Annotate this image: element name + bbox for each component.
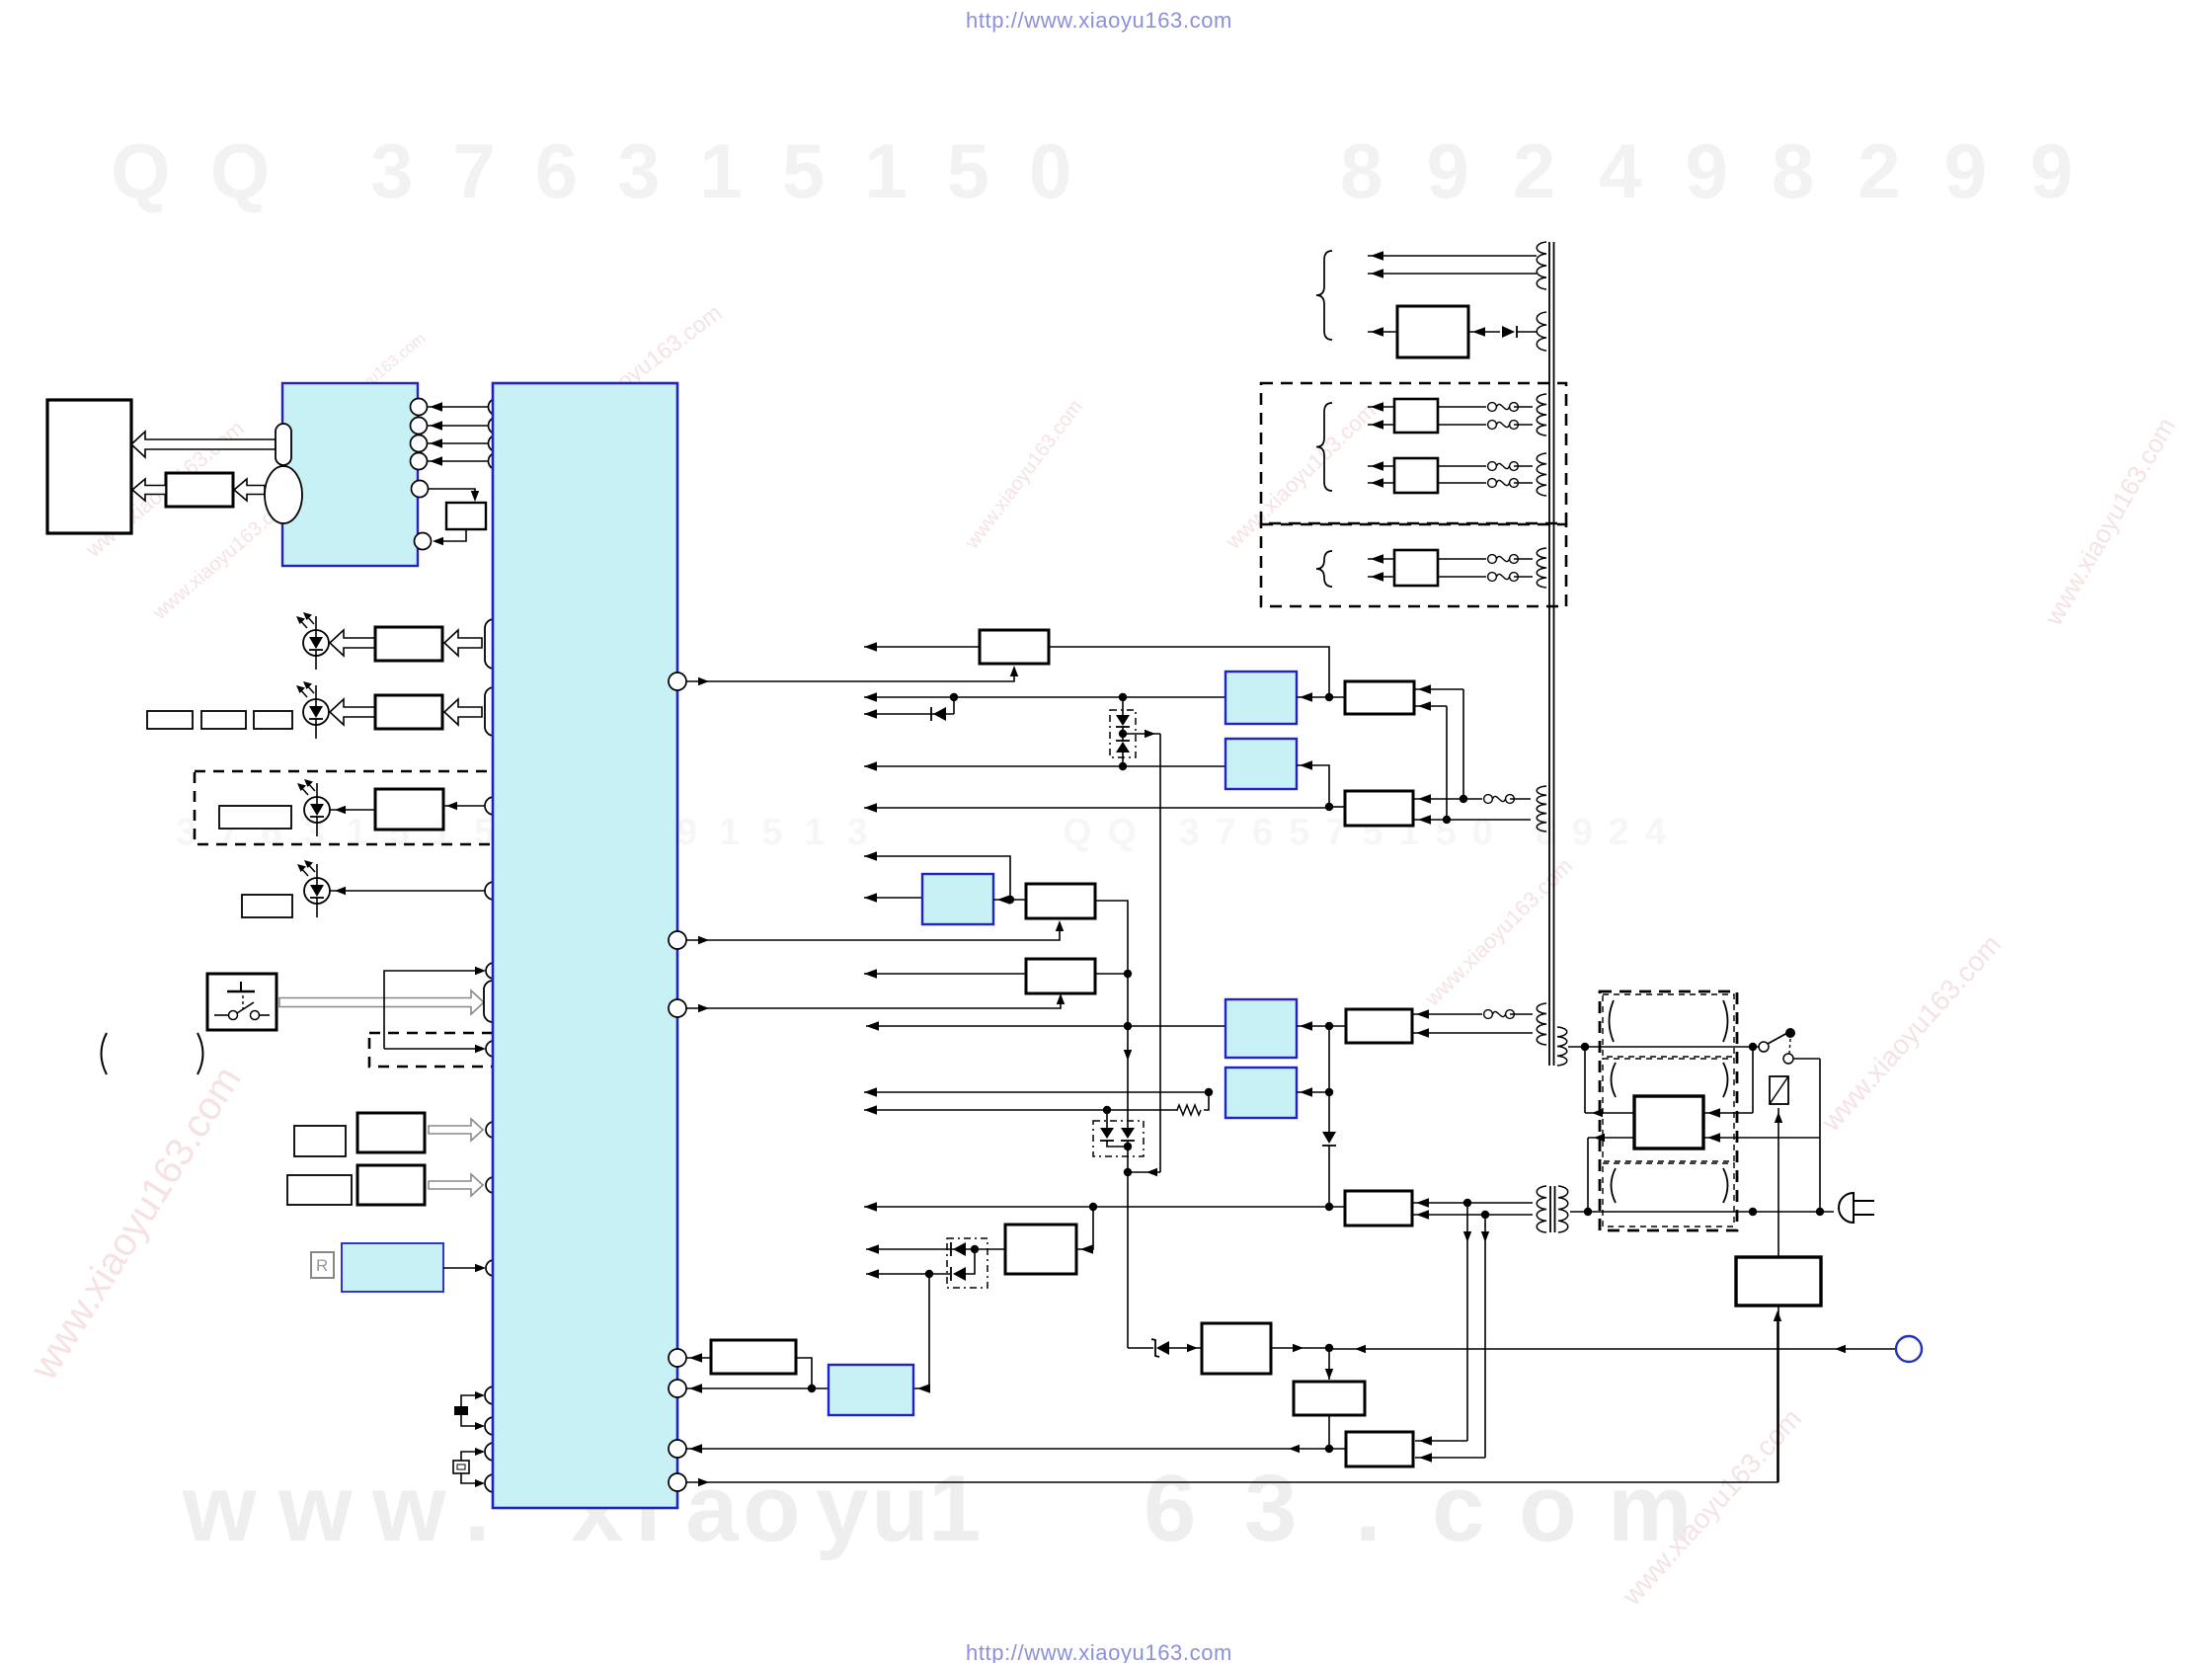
- interconnect wire 4: [428, 460, 488, 462]
- wire I out1: [1368, 558, 1394, 560]
- svg-text:.: .: [1355, 1456, 1382, 1561]
- rectifier block H: [1394, 458, 1438, 493]
- wire: [1510, 1013, 1533, 1015]
- wire test box to pin: [434, 529, 466, 541]
- rectifier block A6: [1346, 1009, 1412, 1043]
- amplifier block: [166, 473, 233, 507]
- test component box: [446, 503, 486, 529]
- wire A3 in 1: [1414, 798, 1482, 800]
- wire clamp2 join: [966, 1249, 975, 1274]
- key label box: [294, 1126, 346, 1156]
- speaker block: [47, 400, 131, 533]
- wire secondary1 tap1: [1368, 255, 1537, 257]
- power switch box: [207, 974, 276, 1030]
- zener ZD3: [1128, 1347, 1153, 1349]
- LED D4: [304, 878, 330, 904]
- AC sense 1 to C: [1415, 1440, 1467, 1442]
- cap box C: [1603, 1163, 1734, 1227]
- wire 986: [864, 973, 1026, 975]
- node: [1119, 730, 1127, 738]
- port capsule: [484, 981, 502, 1022]
- vertical feed 2: [1446, 706, 1448, 820]
- connector capsule CN1: [276, 424, 291, 465]
- regulator block A9: [1202, 1323, 1271, 1374]
- wire D out: [796, 1358, 812, 1388]
- wire H out1: [1368, 465, 1394, 467]
- wire B6 input: [1297, 1025, 1346, 1027]
- pin: [489, 418, 506, 435]
- T1 primary winding: [1557, 1027, 1567, 1066]
- pin: [669, 1380, 686, 1397]
- node: [1119, 693, 1127, 701]
- bridge rectifier block: [1634, 1096, 1703, 1148]
- wire G in2 + fuse: [1438, 424, 1486, 426]
- pin: [486, 1260, 502, 1276]
- rectifier block F: [1397, 306, 1468, 357]
- T1 secondary winding 4: [1537, 453, 1546, 496]
- wire to reset IC: [913, 1274, 929, 1388]
- wire: [1122, 752, 1124, 766]
- brace group 3: [1316, 551, 1332, 587]
- option dashed box: [195, 771, 578, 844]
- fuse PS1: [1484, 795, 1493, 804]
- zener ZD1: [1116, 715, 1130, 726]
- svg-text:R: R: [316, 1256, 328, 1275]
- wire IC to A4: [686, 923, 1060, 940]
- svg-text:y: y: [816, 1456, 868, 1561]
- wire ZD3 to A9: [1169, 1347, 1202, 1349]
- wire zener chain: [1122, 697, 1124, 715]
- T1 core: [1548, 242, 1550, 1066]
- wire rail 818: [864, 807, 1329, 809]
- wire I out2: [1368, 576, 1394, 578]
- arrow driver to LED2: [330, 699, 375, 725]
- wire A1 output: [864, 646, 980, 648]
- svg-text:o: o: [1519, 1456, 1577, 1561]
- wire A7 in 2: [1412, 1214, 1533, 1216]
- wire rail 706: [864, 696, 1225, 698]
- LED driver block 3: [375, 789, 443, 830]
- AC line top: [1568, 1046, 1759, 1048]
- osc block D: [711, 1340, 796, 1374]
- wire B7 input: [1297, 1091, 1329, 1093]
- wire 867: [864, 856, 1010, 900]
- cap box A: [1603, 994, 1734, 1057]
- bus to node: [1128, 1171, 1160, 1173]
- bridge feed 2: [1588, 1137, 1634, 1139]
- regulator block B3 (cyan): [1225, 672, 1297, 724]
- interconnect wire 1: [428, 406, 488, 408]
- LED D2: [303, 699, 329, 725]
- power control block: [1736, 1257, 1821, 1306]
- svg-text:u: u: [871, 1456, 929, 1561]
- wire switch sense bottom: [384, 1048, 483, 1050]
- AC plug: [1839, 1193, 1854, 1223]
- crystal X1: [454, 1406, 468, 1415]
- wire: [1106, 1110, 1108, 1128]
- T1 secondary winding 7: [1537, 1003, 1546, 1045]
- interconnect wire 3: [428, 442, 488, 444]
- audio block B5 (cyan): [922, 874, 993, 924]
- wire 1290: [866, 1273, 950, 1275]
- fuse PS2: [1484, 1010, 1493, 1019]
- regulator block A5: [1026, 959, 1095, 993]
- regulator block B6 (cyan): [1225, 999, 1297, 1058]
- wire rail 1039: [866, 1025, 1225, 1027]
- pin X2b: [485, 1474, 503, 1492]
- AC sense 1: [1466, 1203, 1468, 1441]
- key label box: [287, 1175, 352, 1205]
- wire relay drive: [1777, 1108, 1779, 1257]
- wire IR to IC: [443, 1267, 483, 1269]
- svg-text:a: a: [685, 1456, 739, 1561]
- wire rail 1106: [864, 1091, 1209, 1093]
- pin: [489, 399, 506, 416]
- wire B3 input: [1297, 696, 1345, 698]
- wire IC pin to LED4: [330, 890, 485, 892]
- wire A2 in 2: [1414, 705, 1447, 707]
- diode D7: [1121, 1128, 1135, 1139]
- key block 2: [357, 1165, 425, 1205]
- wire driver3 to LED3: [330, 809, 375, 811]
- wire net to A8: [1076, 1207, 1093, 1249]
- svg-text:http://www.xiaoyu163.com: http://www.xiaoyu163.com: [966, 8, 1232, 33]
- diode D5: [933, 707, 946, 721]
- wire B5 input: [993, 899, 1026, 901]
- wire B4 input: [1297, 765, 1329, 807]
- resistor R1: [1177, 1105, 1201, 1115]
- protector block A8: [1005, 1225, 1076, 1274]
- regulator block A2: [1345, 681, 1414, 714]
- gray arrow key1: [429, 1119, 483, 1141]
- pin: [486, 963, 502, 979]
- wire H in2 + fuse: [1438, 482, 1486, 484]
- switched line: [1819, 1059, 1821, 1212]
- rectifier block G: [1394, 399, 1438, 433]
- option dashed box 2: [369, 1033, 550, 1067]
- label box: [219, 806, 291, 829]
- pin: [669, 999, 686, 1017]
- pin: [411, 436, 428, 452]
- rectifier block I: [1394, 550, 1438, 586]
- gray arrow key2: [429, 1174, 483, 1196]
- LED D1: [303, 630, 329, 656]
- pin: [485, 797, 503, 815]
- long wire to AC detect: [1329, 1348, 1896, 1350]
- T2 core: [1549, 1186, 1551, 1232]
- pin: [489, 453, 506, 470]
- bridge feed 1: [1584, 1047, 1586, 1113]
- wire A2 in 1: [1414, 688, 1463, 690]
- diode D10: [953, 1267, 966, 1281]
- svg-text:http://www.xiaoyu163.com: http://www.xiaoyu163.com: [966, 1640, 1232, 1663]
- resonator X2: [453, 1461, 469, 1473]
- branch to bus: [1123, 733, 1160, 735]
- wire: [1122, 727, 1124, 741]
- wire A1 to rail: [1049, 647, 1329, 697]
- IR sensor icon: [311, 1252, 334, 1278]
- LED driver block 1: [375, 627, 442, 661]
- svg-text:1: 1: [928, 1456, 981, 1561]
- wire to crystal X1: [461, 1395, 483, 1406]
- bus vertical: [1159, 734, 1161, 1172]
- arrow connector to amp: [234, 479, 265, 501]
- label box: [242, 895, 292, 917]
- wire rail 776: [864, 765, 1225, 767]
- regulator block B7 (cyan): [1225, 1068, 1297, 1118]
- wire: [1510, 798, 1531, 800]
- wire A5 to rail: [1095, 973, 1128, 975]
- wire resonator X2 return: [461, 1473, 483, 1483]
- arrow IC to driver2: [444, 699, 482, 725]
- zener ZD2: [1116, 740, 1130, 742]
- wire I in1 + fuse: [1438, 558, 1486, 560]
- diode D11: [1468, 331, 1500, 333]
- display board (cyan): [282, 383, 418, 566]
- wire clamp join: [1107, 1141, 1128, 1147]
- parenthesis right: [197, 1033, 203, 1074]
- key block 1: [357, 1113, 425, 1152]
- IR receiver block (cyan): [342, 1243, 443, 1292]
- svg-text:o: o: [743, 1456, 801, 1561]
- T2 primary winding: [1558, 1186, 1568, 1232]
- wire switch sense top: [384, 971, 483, 1049]
- wire G out2: [1368, 424, 1394, 426]
- wire A7 in 1: [1412, 1202, 1533, 1204]
- pin: [415, 533, 432, 550]
- wire to IC pin 1467: [686, 1448, 1329, 1450]
- T1 secondary winding 3: [1537, 394, 1546, 436]
- wire H in1 + fuse: [1438, 465, 1486, 467]
- LED driver block 2: [375, 695, 442, 729]
- bus arrow to speaker: [131, 432, 276, 457]
- port capsule: [485, 687, 503, 736]
- AC sense 2: [1484, 1215, 1486, 1458]
- capacitor arcs B: [1612, 1063, 1617, 1097]
- detect block B8: [1294, 1382, 1365, 1415]
- standby rect block A7: [1345, 1191, 1412, 1226]
- wire A9 to B8: [1328, 1348, 1330, 1380]
- wire relay block bottom: [1777, 1306, 1779, 1482]
- svg-text:w: w: [182, 1456, 257, 1561]
- gray arrow switch to IC: [279, 990, 484, 1014]
- regulator block A1: [980, 630, 1049, 664]
- svg-text:w: w: [277, 1456, 353, 1561]
- wire 1265: [866, 1248, 1005, 1250]
- wire: [1204, 1092, 1209, 1110]
- motor supply dashed box: [1261, 383, 1566, 523]
- wire pin to test box: [429, 489, 475, 499]
- cap box B: [1603, 1059, 1734, 1161]
- pin X2a: [485, 1443, 503, 1461]
- svg-text:w: w: [371, 1456, 446, 1561]
- mid arrow down: [1124, 1050, 1132, 1061]
- arrow amp to speaker: [132, 479, 166, 501]
- wire A3 in 2: [1414, 819, 1531, 821]
- power switch S1: [1759, 1042, 1769, 1052]
- line filter outer dashed box: [1600, 991, 1737, 1230]
- wire D to IC: [686, 1357, 711, 1359]
- diode D8 vertical: [1328, 1026, 1330, 1132]
- wire power control: [686, 1313, 1777, 1482]
- pin X1a: [485, 1386, 503, 1404]
- wire B8 out: [1328, 1415, 1330, 1449]
- reset IC block (cyan): [829, 1365, 913, 1415]
- pin: [411, 399, 428, 416]
- T1 secondary winding 2: [1537, 312, 1546, 351]
- diode clamp dashed box: [1093, 1121, 1144, 1156]
- svg-text:6: 6: [1144, 1456, 1196, 1561]
- pin X1b: [485, 1417, 503, 1435]
- wire to A3: [1329, 806, 1345, 808]
- pin: [669, 1440, 686, 1458]
- pin: [669, 1349, 686, 1367]
- wire rail 1222: [864, 1206, 1345, 1208]
- diode D9: [953, 1242, 966, 1256]
- port capsule: [485, 619, 503, 669]
- pin: [411, 453, 428, 470]
- pin: [669, 931, 686, 949]
- wire H out2: [1368, 482, 1394, 484]
- bridge in right 2: [1703, 1137, 1820, 1139]
- wire A6 in 2: [1412, 1032, 1533, 1034]
- wire G in1 + fuse: [1438, 406, 1486, 408]
- wire 723: [864, 713, 954, 715]
- svg-text:3: 3: [1244, 1456, 1297, 1561]
- wire crystal X1 return: [461, 1415, 483, 1426]
- parenthesis left: [102, 1033, 108, 1074]
- AC detect block C: [1346, 1432, 1413, 1466]
- pin: [485, 882, 503, 900]
- main system IC U1 (cyan): [493, 383, 677, 1508]
- wire rail down: [1127, 1147, 1129, 1348]
- pin: [411, 418, 428, 435]
- clamp dashed box 2: [947, 1238, 987, 1288]
- wire A4 to rail: [1095, 901, 1128, 1128]
- regulator block B4 (cyan): [1225, 739, 1297, 789]
- arrow IC to driver1: [444, 630, 482, 656]
- wire G out1: [1368, 406, 1394, 408]
- wire IC to A5: [686, 996, 1061, 1008]
- wire I in2 + fuse: [1438, 576, 1486, 578]
- wire 1124: [864, 1109, 1178, 1111]
- brace group 1: [1316, 251, 1332, 340]
- svg-text:QQ 376315150: QQ 376315150: [111, 127, 1111, 214]
- regulator block A4: [1026, 884, 1095, 918]
- LED D3: [304, 797, 330, 823]
- T1 secondary winding 6: [1537, 786, 1546, 831]
- wire IC pin to driver3: [443, 805, 485, 807]
- wire to resonator X2: [461, 1452, 483, 1461]
- switch icon: [240, 982, 242, 991]
- pin: [486, 1041, 502, 1057]
- wire to block C: [1329, 1448, 1346, 1450]
- wire IC to A1: [686, 669, 1014, 681]
- diode D6: [1100, 1128, 1114, 1139]
- zener pair dashed box: [1110, 710, 1136, 757]
- pin: [486, 1122, 502, 1138]
- AC sense 2 to C: [1415, 1457, 1485, 1459]
- wire reset row: [686, 1387, 829, 1389]
- pin: [486, 1177, 502, 1193]
- wire A6 in 1: [1412, 1013, 1482, 1015]
- AC line bottom: [1570, 1211, 1834, 1213]
- AC input terminal: [1896, 1336, 1922, 1362]
- pin: [669, 1473, 686, 1491]
- T1 secondary winding 5: [1537, 548, 1546, 588]
- wire F out: [1368, 331, 1397, 333]
- indicator segments: [147, 711, 193, 729]
- wire 909: [864, 897, 922, 899]
- bridge in right 1: [1703, 1112, 1753, 1114]
- T1 secondary winding 1: [1537, 242, 1546, 289]
- capacitor arcs A: [1610, 1000, 1615, 1042]
- brace group 2: [1316, 403, 1332, 491]
- capacitor arcs C: [1612, 1168, 1617, 1203]
- option supply dashed box: [1261, 524, 1566, 606]
- wire A9 out: [1271, 1347, 1329, 1349]
- svg-text:c: c: [1432, 1456, 1484, 1561]
- pin: [669, 673, 686, 690]
- arrow driver to LED1: [330, 630, 375, 656]
- regulator block A3: [1345, 791, 1413, 826]
- pin: [412, 481, 429, 498]
- svg-text:892498299: 892498299: [1340, 127, 2116, 214]
- T2 secondary winding: [1537, 1186, 1546, 1232]
- connector oval CN2: [265, 466, 302, 523]
- interconnect wire 2: [428, 425, 488, 427]
- relay RY1: [1770, 1076, 1788, 1104]
- node: [950, 693, 958, 701]
- pin: [489, 436, 506, 452]
- wire secondary1 tap2: [1368, 273, 1537, 275]
- vertical feed 1: [1462, 689, 1464, 799]
